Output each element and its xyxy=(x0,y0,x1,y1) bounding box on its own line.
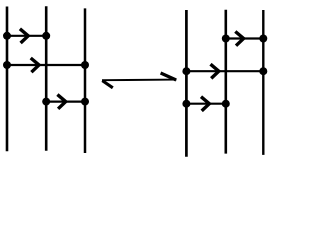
node H2 left dot xyxy=(3,61,11,69)
arrowhead H6 xyxy=(201,97,209,111)
wire V2 left strand 2 xyxy=(45,6,48,151)
node H5 right dot xyxy=(259,67,267,75)
node H1 right dot xyxy=(42,32,50,40)
node H4 left dot xyxy=(222,35,230,43)
arrowhead H4 xyxy=(235,32,243,46)
wire H1 left top crosslink xyxy=(7,35,46,37)
node H5 left dot xyxy=(182,67,190,75)
wire V5 right strand 2 xyxy=(225,10,228,154)
equilibrium arrow main line xyxy=(102,79,176,82)
arrowhead H5 xyxy=(211,64,219,78)
wire V1 left strand 1 xyxy=(6,7,9,152)
wire H6 right bottom crosslink xyxy=(186,103,225,105)
wire V4 right strand 1 xyxy=(185,10,188,157)
node H3 left dot xyxy=(42,98,50,106)
wire H5 right middle crosslink xyxy=(186,70,263,72)
node H6 left dot xyxy=(182,100,190,108)
equilibrium arrow right barb xyxy=(161,73,177,80)
wire H2 left middle crosslink xyxy=(7,64,85,66)
arrowhead H1 xyxy=(20,29,28,43)
wire H3 left bottom crosslink xyxy=(46,100,85,102)
wire V6 right strand 3 xyxy=(262,10,264,155)
wire V3 left strand 3 xyxy=(84,8,87,153)
equilibrium arrow left barb xyxy=(102,81,113,88)
arrowhead H2 xyxy=(31,58,39,72)
arrowhead H3 xyxy=(57,95,65,109)
node H1 left dot xyxy=(3,32,11,40)
node H6 right dot xyxy=(222,100,230,108)
node H4 right dot xyxy=(259,35,267,43)
wire H4 right top crosslink xyxy=(226,37,263,39)
node H3 right dot xyxy=(81,98,89,106)
node H2 right dot xyxy=(81,61,89,69)
